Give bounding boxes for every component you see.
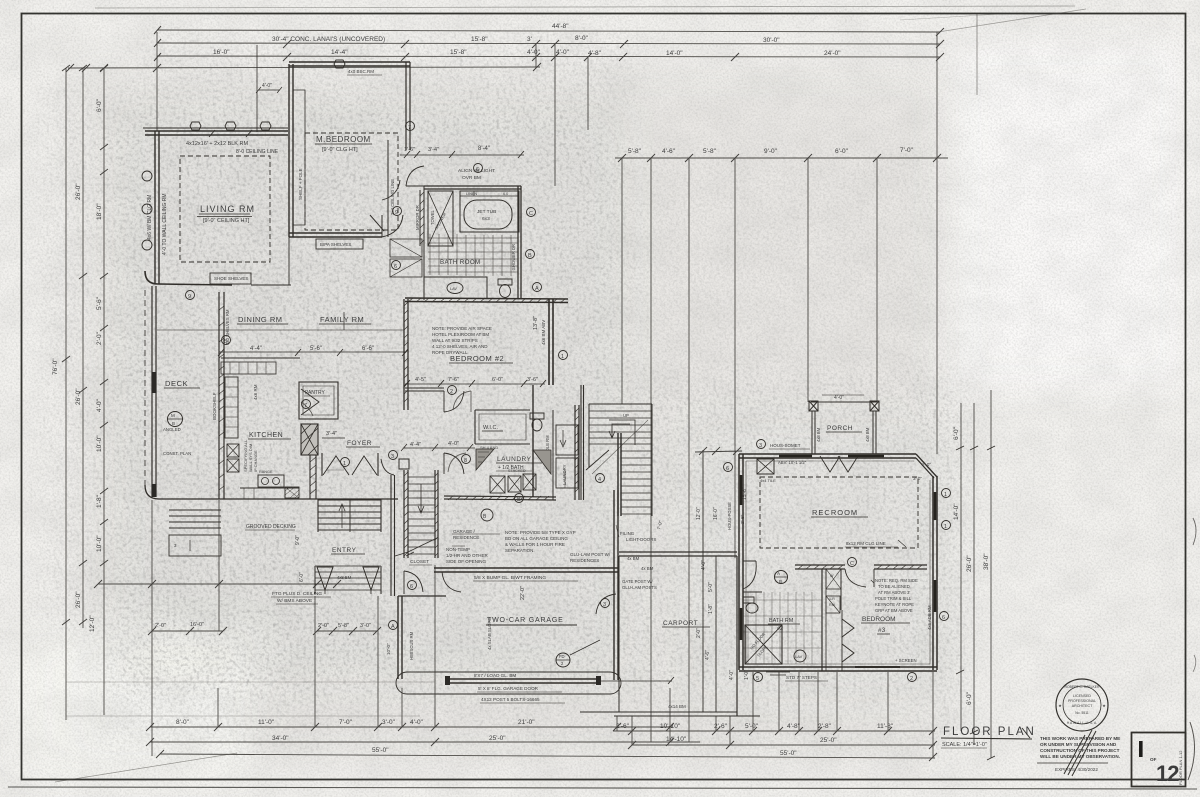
recroom chamfer corner — [916, 454, 937, 478]
recroom right wall — [933, 476, 937, 670]
basement stair right hatched rail — [435, 470, 438, 558]
svg-text:4'-5": 4'-5" — [415, 377, 426, 383]
svg-text:22'-0": 22'-0" — [520, 586, 526, 600]
jet tub — [464, 200, 512, 229]
rotated note right of wic — [545, 435, 550, 470]
svg-text:BIPA SHELVES: BIPA SHELVES — [320, 242, 351, 247]
svg-text:GARAGE /: GARAGE / — [453, 529, 476, 534]
garage door labels — [474, 673, 540, 702]
bath2 shower X — [745, 625, 782, 664]
svg-text:No. 5511: No. 5511 — [1075, 711, 1089, 715]
main stair treads — [318, 500, 381, 530]
faint diagonal bottom left — [55, 753, 237, 782]
svg-text:18'-0": 18'-0" — [96, 203, 103, 220]
label ENTRY — [332, 547, 357, 554]
lav oval — [447, 283, 463, 294]
carport posts verticals — [618, 556, 620, 712]
garage door dim extension — [598, 680, 672, 682]
hall dims — [410, 441, 459, 448]
svg-text:34'-0": 34'-0" — [272, 735, 289, 742]
svg-text:NON-TEMP: NON-TEMP — [446, 547, 470, 552]
M/B circle — [168, 412, 183, 427]
stair sides — [318, 499, 381, 532]
garage rotated dims — [487, 586, 526, 650]
m.bedroom top wall — [289, 62, 410, 66]
svg-text:RESIDENCE: RESIDENCE — [453, 535, 479, 540]
std steps note — [786, 675, 817, 680]
svg-text:4 12'-0 SHELVES, AIR AND: 4 12'-0 SHELVES, AIR AND — [432, 344, 488, 349]
svg-text:6.0: 6.0 — [503, 192, 508, 196]
wic walls — [475, 410, 530, 444]
svg-text:26'-0": 26'-0" — [75, 183, 82, 200]
grid vertical x157 above living rm — [156, 32, 158, 131]
right sub dimension line 5-8/4-6/5-8/9-0/6-0/7-0 — [615, 157, 948, 159]
svg-text:KITCHEN: KITCHEN — [249, 432, 283, 439]
left wall circled columns — [142, 171, 152, 181]
faint construction guide lines SW — [66, 682, 435, 716]
recroom inner wall lines — [746, 461, 930, 664]
svg-text:6'-6": 6'-6" — [362, 346, 374, 352]
recroom top wall — [739, 454, 916, 458]
svg-text:W: W — [830, 574, 834, 578]
svg-text:10'-0": 10'-0" — [386, 643, 391, 655]
svg-text:6: 6 — [394, 264, 397, 270]
svg-text:4: 4 — [598, 477, 601, 483]
m.bedroom ceiling dashed — [305, 133, 398, 230]
svg-text:5' X 8' FLG. GARAGE DOOR: 5' X 8' FLG. GARAGE DOOR — [478, 686, 539, 691]
shower stall — [428, 191, 453, 246]
svg-text:2'-0": 2'-0" — [155, 623, 166, 629]
svg-text:[9'-0" CLG HT]: [9'-0" CLG HT] — [322, 147, 358, 153]
kitchen rotated note — [243, 439, 258, 472]
hall closet walls right of m.bedroom — [387, 140, 389, 237]
svg-text:1-R: 1-R — [829, 597, 835, 601]
bottom trim line — [8, 787, 1197, 789]
circled A garage wall — [389, 621, 398, 630]
carport dim notes — [622, 566, 686, 709]
kitchen island hatch — [285, 487, 299, 498]
svg-text:#3: #3 — [878, 627, 886, 634]
svg-text:LIGHT-DOORS: LIGHT-DOORS — [626, 537, 656, 542]
svg-text:AT RM ABOVE 3': AT RM ABOVE 3' — [878, 590, 910, 595]
wall wic to laundry — [532, 385, 534, 497]
circled marker 7 top — [406, 122, 415, 131]
newel post — [399, 459, 409, 469]
deck steps below — [169, 510, 221, 528]
svg-text:4'-6": 4'-6" — [705, 650, 711, 660]
svg-text:FTG PLUS D. CEILING: FTG PLUS D. CEILING — [272, 591, 322, 597]
garage left upper door arcs — [404, 571, 423, 594]
deck notes — [163, 427, 191, 456]
porch top rail — [811, 401, 877, 403]
svg-text:W.I.C.: W.I.C. — [483, 425, 498, 431]
hatched post kitchen/foyer — [301, 424, 318, 455]
carport bottom edge — [580, 712, 760, 716]
left door arc — [743, 561, 756, 589]
svg-text:RECROOM: RECROOM — [812, 508, 858, 517]
svg-text:RESIDENCES: RESIDENCES — [570, 558, 599, 563]
clg line note — [846, 541, 886, 546]
svg-text:8'X7 / LOAD GL. BM: 8'X7 / LOAD GL. BM — [474, 673, 516, 678]
kitchen appliance X boxes — [227, 444, 239, 457]
sink counter bottom — [240, 487, 299, 489]
svg-text:ABV: 10'-1 1/2": ABV: 10'-1 1/2" — [778, 460, 807, 465]
bottom long dimension line 55-0 — [160, 754, 935, 758]
beam tag above m.bedroom — [348, 69, 374, 74]
bathroom tile grid — [428, 234, 518, 276]
svg-text:2'-8": 2'-8" — [818, 723, 832, 730]
circled letters right of bath — [527, 208, 536, 217]
circled 4 stair — [596, 474, 605, 483]
hall shelf boxes — [390, 239, 422, 257]
svg-text:HIBISCUS RM: HIBISCUS RM — [409, 631, 414, 660]
svg-text:9'-0": 9'-0" — [764, 148, 778, 155]
entry porch steps — [315, 566, 381, 590]
hall door arcs — [444, 453, 464, 474]
svg-text:SHELF + POLE: SHELF + POLE — [298, 168, 303, 200]
svg-text:1/2-HR AND OTHER: 1/2-HR AND OTHER — [446, 553, 489, 558]
tub deck — [460, 191, 519, 232]
laundry bottom hatched wall — [444, 496, 556, 500]
rotated dim 13-8 — [533, 316, 546, 345]
label FAMILY RM — [320, 315, 364, 324]
svg-text:[9'-0" CEILING HT]: [9'-0" CEILING HT] — [203, 218, 250, 224]
bottom dim labels — [176, 719, 894, 757]
deck left wall double — [152, 286, 156, 497]
svg-text:5: 5 — [224, 339, 227, 345]
label LAUNDRY — [497, 456, 532, 471]
svg-text:4x BM: 4x BM — [641, 566, 654, 571]
svg-text:PORCH: PORCH — [827, 425, 853, 432]
svg-text:W/ BMS ABOVE: W/ BMS ABOVE — [277, 598, 312, 604]
family rm dim line — [219, 351, 405, 353]
laundry appliances column — [556, 425, 578, 455]
rotated note right wall — [927, 605, 932, 630]
svg-text:TOWEL: TOWEL — [430, 210, 435, 225]
label DECK — [165, 379, 188, 388]
garage top wall — [434, 568, 619, 572]
svg-text:14'-0": 14'-0" — [953, 503, 960, 520]
m.bedroom left wall — [289, 64, 293, 237]
svg-text:TWO-CAR GARAGE: TWO-CAR GARAGE — [487, 617, 564, 624]
porch dim — [834, 395, 844, 401]
svg-text:14'-4": 14'-4" — [331, 49, 348, 56]
deck wall dark thresholds — [152, 372, 157, 393]
rotated dim 7-0 stair — [656, 520, 663, 530]
svg-text:3'-6": 3'-6" — [527, 377, 538, 383]
svg-text:LAUNDRY: LAUNDRY — [497, 456, 532, 463]
garage left wall — [398, 596, 402, 679]
stair top rail — [589, 403, 652, 405]
svg-text:4X12 POST 5 BOLTS-16665: 4X12 POST 5 BOLTS-16665 — [481, 697, 540, 702]
svg-text:BATH ROOM: BATH ROOM — [440, 259, 481, 266]
bedroom2 note text — [432, 326, 492, 355]
svg-text:2: 2 — [910, 676, 913, 682]
svg-text:12'-0": 12'-0" — [696, 507, 702, 520]
svg-text:10'-0": 10'-0" — [96, 435, 103, 452]
svg-text:LINEN: LINEN — [466, 192, 477, 196]
svg-text:8'-0": 8'-0" — [575, 35, 589, 42]
circled 1 bedroom2 — [559, 351, 568, 360]
svg-text:4'-0 TO WALL CEILING RM: 4'-0 TO WALL CEILING RM — [162, 193, 168, 255]
svg-text:2'-0": 2'-0" — [922, 462, 931, 467]
bath2 toilet — [743, 597, 754, 603]
living room bottom wall w/ rounded corner — [145, 271, 232, 285]
header line above living room — [143, 127, 288, 129]
top edge stray line — [95, 6, 1075, 8]
bath2 walls — [821, 569, 823, 671]
svg-text:6'-0": 6'-0" — [299, 572, 305, 582]
svg-text:4'-0": 4'-0" — [96, 398, 103, 412]
bottom-left dimension line row1 — [150, 726, 672, 728]
top dim labels — [213, 23, 914, 155]
garage right wall — [614, 490, 618, 680]
svg-text:SIDE OF OPENING: SIDE OF OPENING — [446, 559, 487, 564]
svg-text:26'-0": 26'-0" — [966, 555, 973, 572]
svg-text:55'-0": 55'-0" — [372, 747, 389, 754]
svg-text:2'-0": 2'-0" — [696, 628, 702, 638]
svg-text:BEDROOM: BEDROOM — [862, 616, 896, 623]
svg-text:5: 5 — [756, 676, 759, 682]
pantry door arc — [301, 389, 319, 415]
small dim 4-0 above living — [262, 83, 272, 89]
family room north guide line — [157, 329, 404, 331]
verticals from plan to bottom dims — [151, 500, 153, 756]
rotated closet note left — [212, 309, 258, 420]
laundry door wedge left — [476, 449, 494, 470]
m.bedroom door arc bottom right — [382, 215, 403, 237]
svg-text:SHOE SHELVES: SHOE SHELVES — [214, 276, 248, 281]
architect stamp inner circle — [1063, 686, 1101, 724]
signature strokes — [1064, 730, 1096, 776]
closet divider — [840, 569, 842, 610]
svg-text:4x BM: 4x BM — [627, 556, 640, 561]
svg-text:4x12x16' + 2x12 BLK RM: 4x12x16' + 2x12 BLK RM — [186, 141, 248, 147]
svg-text:1: 1 — [944, 492, 947, 498]
label LIVING RM — [200, 204, 255, 224]
laundry appliance boxes — [490, 476, 505, 493]
wall tick slashes — [209, 130, 252, 137]
svg-text:CLOSET: CLOSET — [410, 559, 429, 565]
recroom bottom wall — [739, 667, 937, 671]
circled 2 hall — [448, 386, 457, 395]
garage left wall jog — [398, 595, 446, 597]
left rotated dim labels — [52, 98, 103, 632]
svg-text:8'-0": 8'-0" — [176, 719, 190, 726]
svg-text:LAV: LAV — [795, 654, 803, 659]
svg-text:RANGE: RANGE — [259, 470, 273, 474]
hall dim line — [404, 447, 475, 449]
svg-text:GLU-LAM POST W/: GLU-LAM POST W/ — [570, 552, 611, 557]
svg-text:6'-0": 6'-0" — [953, 426, 960, 440]
svg-text:4x8 BM: 4x8 BM — [337, 575, 352, 580]
label FOYER — [347, 440, 372, 447]
svg-text:4x6 BM ABV: 4x6 BM ABV — [541, 320, 546, 345]
ceiling line note rotated — [390, 179, 420, 230]
svg-text:★: ★ — [1102, 703, 1106, 708]
svg-text:4'-0": 4'-0" — [410, 719, 424, 726]
svg-text:STACKED: STACKED — [508, 469, 526, 473]
svg-text:25'-0": 25'-0" — [820, 737, 837, 744]
svg-text:8'-0 CEILING LINE: 8'-0 CEILING LINE — [236, 149, 279, 155]
door arc hall to bath — [406, 166, 424, 186]
label DINING RM — [238, 315, 283, 324]
porch entry triangles — [820, 456, 858, 472]
svg-text:9: 9 — [395, 210, 398, 216]
svg-text:4x SLAB SLOPE: 4x SLAB SLOPE — [487, 618, 492, 650]
svg-text:BATH RM: BATH RM — [769, 618, 794, 624]
garage door double line — [448, 679, 598, 683]
circled markers recroom — [724, 463, 733, 472]
svg-text:5'-0": 5'-0" — [745, 723, 759, 730]
porch-recroom dim ticks — [956, 446, 995, 760]
hexagon column marker 2 — [225, 122, 236, 130]
svg-text:30'-0": 30'-0" — [763, 37, 780, 44]
circled C — [848, 558, 857, 567]
living room top wall — [145, 131, 288, 135]
svg-text:HOUS-SOMET: HOUS-SOMET — [770, 443, 801, 448]
svg-text:3: 3 — [391, 454, 394, 460]
basement stair bottom runout arrow — [395, 538, 437, 556]
svg-text:5'-6": 5'-6" — [310, 346, 322, 352]
right area vertical grid lines — [621, 158, 623, 404]
svg-text:3': 3' — [527, 36, 532, 43]
svg-text:8'-4": 8'-4" — [478, 146, 490, 152]
tub shelf lines — [460, 191, 519, 196]
svg-text:LIVING RM: LIVING RM — [200, 204, 255, 214]
svg-text:4'-0": 4'-0" — [701, 560, 707, 570]
double doors bedroom3 — [842, 619, 854, 637]
bathroom top wall — [424, 186, 521, 189]
far right vertical dims — [960, 403, 962, 731]
small angled door leaf — [370, 215, 384, 231]
svg-text:4'-4": 4'-4" — [410, 442, 421, 448]
right margin curve near sheet box — [1188, 722, 1195, 780]
svg-text:BOOKSHELF: BOOKSHELF — [212, 392, 217, 420]
svg-text:4x8 BM: 4x8 BM — [865, 427, 870, 442]
recroom interior hatched wall — [795, 565, 927, 569]
svg-text:FLOOR PLAN: FLOOR PLAN — [943, 726, 1036, 738]
svg-text:C: C — [850, 561, 854, 567]
svg-text:GRP AT BM ABOVE: GRP AT BM ABOVE — [875, 608, 913, 613]
top dimension line 16-0/14-4/15-8/4-0/4-0/4-8/14-0/24-0 — [157, 56, 940, 57]
bathroom right wall — [518, 186, 521, 299]
svg-text:SHOWER DR: SHOWER DR — [511, 244, 516, 270]
svg-text:4'-4": 4'-4" — [250, 346, 262, 352]
svg-text:6'-0": 6'-0" — [966, 691, 973, 705]
svg-text:4'-6": 4'-6" — [662, 148, 676, 155]
svg-text:2'-6": 2'-6" — [616, 723, 630, 730]
house-somet note — [770, 443, 801, 448]
svg-text:14'-0": 14'-0" — [666, 50, 683, 57]
svg-text:UP: UP — [623, 413, 629, 418]
grid stub x257 — [256, 45, 258, 132]
bedroom2 bottom wall — [405, 388, 444, 391]
stair side hatched wall — [310, 455, 316, 499]
m.bedroom right wall upper — [406, 62, 410, 150]
svg-text:6'-0": 6'-0" — [835, 148, 849, 155]
basement stair down arrow — [418, 484, 424, 513]
label BATHROOM — [440, 259, 481, 266]
bedroom2 left hatched wall — [404, 299, 408, 410]
stairwell outer rails — [589, 404, 652, 516]
powder toilet — [530, 413, 544, 419]
svg-text:3: 3 — [603, 602, 606, 608]
svg-text:4x6 ADB RM: 4x6 ADB RM — [927, 605, 932, 630]
svg-text:B: B — [779, 579, 782, 584]
bedroom2 right wall dark — [549, 299, 553, 385]
align light note — [458, 168, 495, 181]
svg-text:ROBERT C. SAELKER: ROBERT C. SAELKER — [1065, 685, 1100, 689]
circled 5 left — [222, 336, 231, 345]
svg-text:4'-0": 4'-0" — [448, 441, 459, 447]
tick crossings carport verticals — [695, 447, 742, 455]
svg-text:3'-0": 3'-0" — [382, 719, 396, 726]
top dimension line 44'-8 — [157, 30, 940, 32]
toilet — [498, 279, 512, 285]
bath hatch band left — [420, 190, 424, 246]
interior door arc recroom — [845, 569, 874, 587]
stair landing + UP arrow — [609, 420, 635, 445]
svg-text:PANTRY: PANTRY — [305, 390, 325, 396]
door arcs below bedroom2 — [444, 391, 464, 412]
svg-text:16'-0": 16'-0" — [713, 507, 719, 520]
label BATH RM #2 — [769, 618, 794, 632]
svg-text:4'-0": 4'-0" — [834, 395, 844, 401]
svg-text:44'-8": 44'-8" — [552, 23, 569, 30]
svg-text:5'-8": 5'-8" — [628, 148, 642, 155]
left vertical dim line 26-0 series — [82, 68, 84, 628]
grooved decking note — [246, 524, 296, 530]
filing note under stair — [620, 531, 656, 542]
svg-text:1: 1 — [343, 461, 346, 467]
svg-text:1'-8": 1'-8" — [708, 604, 714, 614]
svg-text:HOTEL PLEXIROOM AT BM: HOTEL PLEXIROOM AT BM — [432, 332, 489, 337]
sheet number 1 — [1139, 741, 1143, 757]
bedroom3 note — [875, 578, 918, 613]
label RECROOM — [812, 508, 858, 517]
svg-text:A: A — [777, 571, 780, 576]
svg-text:4x6 RM: 4x6 RM — [253, 384, 258, 400]
svg-text:3'-4": 3'-4" — [326, 431, 337, 437]
svg-text:JET TUB: JET TUB — [477, 209, 496, 215]
svg-text:4x8 BM: 4x8 BM — [816, 427, 821, 442]
svg-text:SCALE: 1/4"=1'-0": SCALE: 1/4"=1'-0" — [942, 742, 987, 748]
svg-text:7: 7 — [304, 403, 307, 409]
circled 8 hall — [462, 455, 471, 464]
circled 9 hall — [393, 207, 402, 216]
svg-text:8: 8 — [464, 458, 467, 464]
svg-text:4'-0": 4'-0" — [556, 49, 570, 56]
svg-text:4'-0": 4'-0" — [527, 49, 541, 56]
svg-text:9: 9 — [188, 294, 191, 300]
svg-text:2'-0": 2'-0" — [318, 623, 329, 629]
vanity counter — [424, 277, 487, 298]
svg-text:NOTE: REQ. RM SIDE: NOTE: REQ. RM SIDE — [875, 578, 918, 583]
left vertical dim line 76-0 — [65, 68, 67, 720]
label M.BEDROOM — [316, 135, 371, 153]
dims near entry — [295, 535, 305, 582]
wic shelves inner — [479, 414, 526, 440]
svg-text:LAV: LAV — [450, 287, 457, 291]
garage door track capsule — [396, 672, 621, 694]
svg-text:B: B — [517, 497, 521, 503]
carport top beam — [619, 552, 737, 556]
svg-text:7'-0": 7'-0" — [339, 719, 353, 726]
bottom-right dimension line row2 — [632, 744, 935, 746]
right margin paren mark — [1193, 518, 1196, 545]
svg-text:6: 6 — [726, 466, 729, 472]
